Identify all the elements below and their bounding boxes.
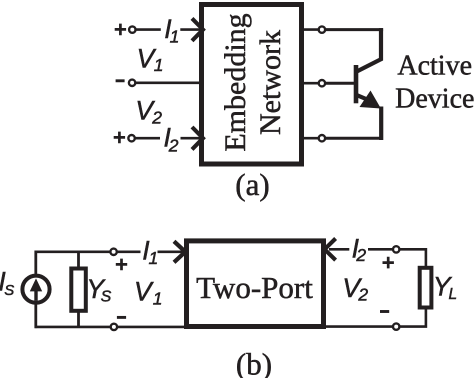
label gap I1 bbox=[161, 19, 181, 41]
svg-text:1: 1 bbox=[154, 55, 164, 75]
svg-text:Two-Port: Two-Port bbox=[196, 270, 313, 305]
terminal node port2 bottom (b) bbox=[393, 323, 399, 329]
svg-text:Device: Device bbox=[395, 84, 474, 115]
svg-text:S: S bbox=[4, 282, 14, 299]
svg-text:(b): (b) bbox=[236, 346, 272, 378]
plus sign V1 (b) bbox=[116, 259, 127, 271]
svg-text:1: 1 bbox=[149, 248, 159, 268]
terminal node port2 top (b) bbox=[393, 246, 399, 252]
svg-text:S: S bbox=[101, 288, 112, 305]
wire collector vertical bbox=[379, 28, 383, 60]
embedding network box U1 bbox=[202, 5, 302, 165]
arrowhead I1 into box bbox=[192, 18, 203, 40]
wire port2 left bbox=[136, 137, 201, 140]
transistor Q1 base bar bbox=[354, 65, 359, 103]
svg-text:1: 1 bbox=[153, 289, 163, 309]
transistor Q1 collector lead bbox=[357, 59, 383, 72]
label gap I2 bbox=[160, 128, 181, 151]
terminal node port1 bottom (b) bbox=[111, 324, 117, 330]
svg-text:Network: Network bbox=[254, 30, 287, 135]
wire bottom left run bbox=[35, 326, 186, 329]
plus sign port1 bbox=[115, 24, 126, 36]
wire top right run bbox=[329, 248, 393, 251]
wire YS bottom bbox=[77, 312, 80, 327]
arrowhead I2 into two-port bbox=[325, 239, 336, 261]
terminal node base bbox=[319, 80, 325, 86]
transistor Q1 emitter lead bbox=[357, 95, 372, 101]
wire collector top run bbox=[325, 28, 383, 31]
svg-text:2: 2 bbox=[357, 284, 368, 304]
plus sign V2 (b) bbox=[383, 257, 394, 269]
svg-text:(a): (a) bbox=[235, 167, 269, 202]
wire emitter vertical bbox=[379, 107, 383, 141]
current source IS bbox=[22, 276, 49, 303]
admittance YS bbox=[71, 269, 86, 311]
svg-text:V: V bbox=[134, 276, 154, 306]
stub wire base terminal bbox=[301, 82, 319, 85]
arrowhead I2 into box bbox=[192, 127, 203, 149]
wire emitter bottom run bbox=[325, 137, 383, 140]
current source IS arrow stem bbox=[34, 288, 37, 301]
terminal node emitter bbox=[319, 135, 325, 141]
transistor Q1 emitter arrowhead bbox=[360, 91, 381, 109]
current source IS arrowhead bbox=[30, 278, 42, 291]
wire to YL top bbox=[400, 249, 426, 266]
terminal node port1 top (b) bbox=[110, 249, 116, 255]
terminal node collector bbox=[319, 26, 325, 32]
wire to YL bottom bbox=[400, 309, 426, 327]
arrowhead I1 into two-port bbox=[174, 241, 185, 262]
svg-text:2: 2 bbox=[355, 245, 366, 265]
terminal node minus left bbox=[129, 80, 135, 86]
wire top left run bbox=[35, 251, 185, 254]
wire common left bbox=[136, 82, 200, 85]
svg-text:2: 2 bbox=[168, 135, 179, 155]
terminal node port1 left bbox=[129, 26, 135, 32]
terminal node port2 left bbox=[128, 135, 134, 141]
plus sign port2 bbox=[114, 132, 125, 144]
svg-text:2: 2 bbox=[151, 108, 162, 128]
wire YS top bbox=[77, 252, 80, 267]
wire source bottom vertical bbox=[34, 303, 37, 329]
wire source top vertical bbox=[34, 251, 37, 276]
minus sign port1 bbox=[116, 79, 125, 82]
wire bottom right run bbox=[324, 325, 393, 328]
stub wire collector terminal bbox=[301, 28, 319, 31]
label gap I1 (b) bbox=[141, 243, 158, 263]
minus sign V1 (b) bbox=[117, 316, 126, 319]
wire base run bbox=[325, 82, 354, 85]
wire port1 left bbox=[136, 28, 200, 31]
svg-text:1: 1 bbox=[170, 27, 180, 47]
svg-text:Embedding: Embedding bbox=[219, 13, 252, 151]
minus sign V2 (b) bbox=[380, 310, 389, 313]
label gap I2 (b) bbox=[349, 242, 368, 262]
two-port box U2 bbox=[187, 241, 324, 327]
admittance YL bbox=[420, 268, 432, 308]
svg-text:Active: Active bbox=[397, 50, 472, 81]
svg-text:L: L bbox=[449, 286, 458, 303]
stub wire emitter terminal bbox=[301, 137, 319, 140]
